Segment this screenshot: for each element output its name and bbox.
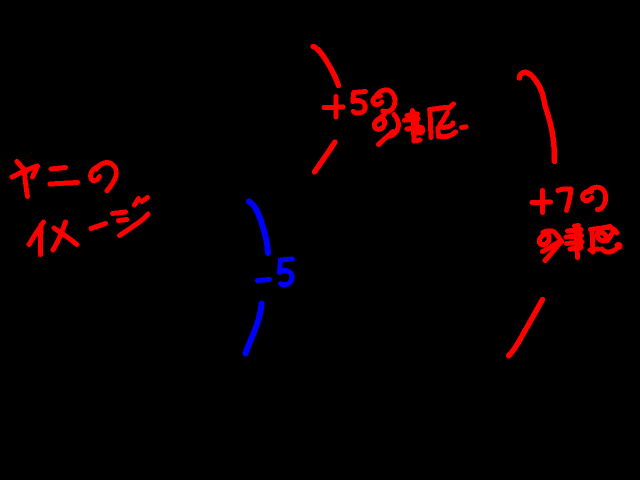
red left brace top arc xyxy=(313,47,339,86)
ji dakuten tick 1 xyxy=(135,199,139,206)
digit 5 xyxy=(280,259,293,285)
kou top tick xyxy=(410,111,416,116)
ta right curve xyxy=(391,115,399,137)
kou bar 2 xyxy=(404,119,418,121)
kou bar 1 xyxy=(568,230,582,232)
red text "ヤニの" (line 1 of left label) xyxy=(12,162,116,197)
ta top stroke xyxy=(543,231,561,240)
kou bar 2 xyxy=(566,236,582,238)
kan inner loop xyxy=(597,233,606,241)
trailing dash xyxy=(462,124,467,130)
kan bottom sweep xyxy=(602,249,616,252)
i vertical xyxy=(38,225,44,255)
kan bottom sweep xyxy=(441,132,456,137)
me stroke 1 xyxy=(53,222,66,250)
red scribble text "多幸感." (under +5) xyxy=(374,104,466,145)
plus horizontal xyxy=(532,200,551,206)
kan inner band xyxy=(441,123,453,128)
ta mid diagonal xyxy=(543,243,559,252)
ta bottom diagonal xyxy=(379,132,394,145)
kou top tick xyxy=(575,223,579,229)
red text "+5の" xyxy=(324,90,395,117)
ta loop xyxy=(539,233,549,245)
kan inner diagonal xyxy=(440,113,448,125)
blue brace top arc xyxy=(249,202,268,254)
kan top bar xyxy=(430,107,448,109)
kan top bump xyxy=(604,227,610,228)
ni bottom bar xyxy=(50,183,78,185)
ya stroke 1 xyxy=(17,162,26,173)
red scribble text "多幸感" (under +7) xyxy=(539,226,620,261)
kou right vertical xyxy=(578,230,584,249)
blue text "-5" xyxy=(258,259,293,285)
ji middle bar 1 xyxy=(113,212,126,214)
red right brace top arc xyxy=(519,72,554,161)
red text "イメージ" (line 2 of left label) xyxy=(29,198,148,255)
blue brace bottom arc xyxy=(246,304,262,354)
kou top bar xyxy=(407,114,418,116)
kou right loop xyxy=(418,127,423,132)
i diagonal xyxy=(29,222,44,245)
kan left vertical xyxy=(592,230,593,253)
ya stroke 2 crossbar with hook xyxy=(12,166,38,177)
ta long diagonal xyxy=(545,241,562,261)
kou right vertical xyxy=(414,115,420,133)
digit 7 xyxy=(558,189,571,211)
plus vertical xyxy=(540,191,545,213)
kan left vertical xyxy=(430,110,431,138)
no loop xyxy=(583,191,592,200)
ya stroke 3 vertical xyxy=(24,169,28,197)
digit 5 xyxy=(353,92,366,114)
ji middle bar 2 xyxy=(119,220,128,221)
me stroke 2 xyxy=(54,228,77,245)
ji dakuten tick 2 xyxy=(142,198,148,202)
kan right dot xyxy=(617,245,620,248)
red left brace bottom arc xyxy=(315,142,336,172)
no big arc xyxy=(377,90,395,112)
ni top bar xyxy=(51,168,66,170)
minus xyxy=(258,280,270,281)
no big arc xyxy=(97,163,117,191)
red text "+7の" xyxy=(532,187,606,212)
kou bar fill xyxy=(408,117,416,118)
no big arc xyxy=(588,187,606,209)
kan right bump xyxy=(611,228,617,233)
kan right diagonal xyxy=(608,233,613,241)
long dash xyxy=(91,224,106,229)
ta loop xyxy=(374,119,384,130)
kou bar 3 xyxy=(567,242,583,244)
kou foot xyxy=(414,140,420,141)
kou bar 4 xyxy=(570,248,581,250)
kou vertical xyxy=(413,111,414,141)
ta right mass xyxy=(556,234,562,242)
plus horizontal xyxy=(324,105,343,111)
ta top diagonal xyxy=(377,115,385,121)
kou vertical xyxy=(576,226,578,258)
kan small vertical xyxy=(436,128,442,137)
kan top-right tick xyxy=(449,104,454,108)
ji sweep xyxy=(120,214,149,236)
kan top bar xyxy=(591,227,612,230)
red right brace bottom arc xyxy=(509,300,543,356)
kou mid bar xyxy=(407,128,415,129)
plus vertical xyxy=(334,97,339,118)
no loop xyxy=(373,96,382,105)
no loop xyxy=(91,167,100,181)
kan left foot xyxy=(590,249,598,250)
